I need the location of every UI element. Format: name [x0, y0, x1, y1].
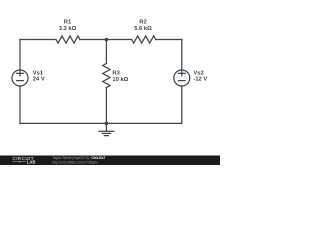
svg-text:LAB: LAB	[27, 159, 36, 164]
node junction top	[105, 38, 109, 42]
voltage source Vs1	[12, 70, 28, 86]
svg-text:10 kΩ: 10 kΩ	[112, 77, 128, 83]
svg-text:-12 V: -12 V	[193, 76, 207, 82]
footer text	[52, 156, 105, 164]
svg-text:R2: R2	[139, 20, 146, 26]
resistor R1	[56, 36, 80, 43]
wire top rail middle segment	[80, 39, 132, 41]
svg-text:3.3 kΩ: 3.3 kΩ	[59, 26, 77, 32]
voltage source Vs2	[174, 70, 190, 86]
svg-text:Taylor Street (royal22.5) / Ch: Taylor Street (royal22.5) / Ch3-Ex7	[52, 156, 105, 160]
label R2	[134, 20, 152, 33]
wire left vertical top	[19, 40, 21, 71]
ground	[105, 123, 107, 131]
footer bar	[0, 155, 220, 165]
svg-text:5.6 kΩ: 5.6 kΩ	[134, 26, 152, 32]
svg-text:http://circuitlab.com/c736g2v: http://circuitlab.com/c736g2v	[52, 161, 98, 165]
label Vs2	[193, 71, 207, 83]
wire left vertical bottom	[19, 86, 21, 123]
svg-text:R3: R3	[112, 71, 120, 77]
label R1	[59, 20, 77, 33]
resistor R2	[132, 36, 156, 43]
label R3	[112, 71, 128, 83]
label Vs1	[33, 71, 45, 83]
svg-text:R1: R1	[64, 20, 72, 26]
wire right vertical bottom	[181, 86, 183, 123]
wire right vertical top	[181, 40, 183, 71]
svg-text:24 V: 24 V	[33, 76, 45, 82]
resistor R3	[103, 64, 110, 88]
wire R3 top lead	[105, 40, 107, 64]
wire top rail right segment	[156, 39, 182, 41]
node junction bottom	[105, 122, 109, 126]
wire bottom rail	[20, 122, 182, 124]
footer logo CIRCUIT LAB	[13, 156, 36, 164]
wire R3 bottom lead	[105, 88, 107, 124]
wire top rail left segment	[20, 39, 56, 41]
